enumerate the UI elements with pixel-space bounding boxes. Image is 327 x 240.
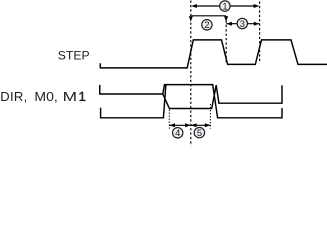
wire STEP waveform (100, 40, 327, 68)
dashed vertical line at second STEP rising edge (259, 2, 261, 63)
wire DIR M0 M1 upper rail: left tick, old-top rail, rise to valid-top, valid-top rail, fall to new-bottom, right-bottom rail, end tick (100, 85, 282, 118)
dimension 5 left arrowhead (191, 123, 197, 127)
dimension 4 left arrowhead (169, 123, 175, 127)
dimension 5 line (hold time) (191, 124, 211, 126)
dimension 3 line (STEP low time) (226, 23, 259, 25)
dimension 4 line (setup time) (169, 124, 190, 126)
wire DIR M0 M1 lower rail: left tick, old-bottom rail, steep rise at crossover X1 (101, 85, 166, 118)
dashed vertical line at first STEP rising edge (190, 1, 192, 147)
circled 2 (202, 20, 212, 30)
dimension 1 line (STEP period) (196, 5, 255, 7)
circled 1 (220, 1, 230, 11)
dimension 2 left down arrowhead (189, 16, 193, 22)
dimension 4 right arrowhead (185, 123, 191, 127)
dimension 1 left arrowhead (191, 4, 197, 8)
svg-text:2: 2 (204, 20, 209, 30)
svg-text:3: 3 (240, 19, 245, 29)
dimension 3 left arrowhead (226, 22, 232, 26)
svg-text:1: 1 (222, 1, 227, 11)
circled 5 (194, 127, 204, 137)
dimension 2 right down arrowhead (224, 16, 228, 22)
dimension 1 right arrowhead (254, 4, 260, 8)
svg-text:4: 4 (175, 128, 180, 138)
digit 1 of M1 (footed style) (79, 92, 85, 101)
circled 4 (173, 128, 183, 138)
wire DIR M0 M1: X1 descender, valid-bottom rail, X2 rise, fall to right-top rail, end tick (163, 85, 282, 108)
dimension 2 line (STEP high time) (191, 15, 226, 17)
svg-text:DIR,M0,M: DIR,M0,M (0, 89, 77, 104)
svg-text:STEP: STEP (58, 49, 90, 63)
svg-text:5: 5 (197, 128, 202, 138)
dotted extension line at end of DIR transition X1 (168, 110, 170, 129)
dimension 5 right arrowhead (205, 123, 211, 127)
dashed vertical line at STEP falling edge (225, 16, 227, 64)
dotted extension line at start of DIR transition X2 (209, 104, 211, 129)
circled 3 (237, 18, 247, 28)
dimension 3 right arrowhead (254, 22, 260, 26)
